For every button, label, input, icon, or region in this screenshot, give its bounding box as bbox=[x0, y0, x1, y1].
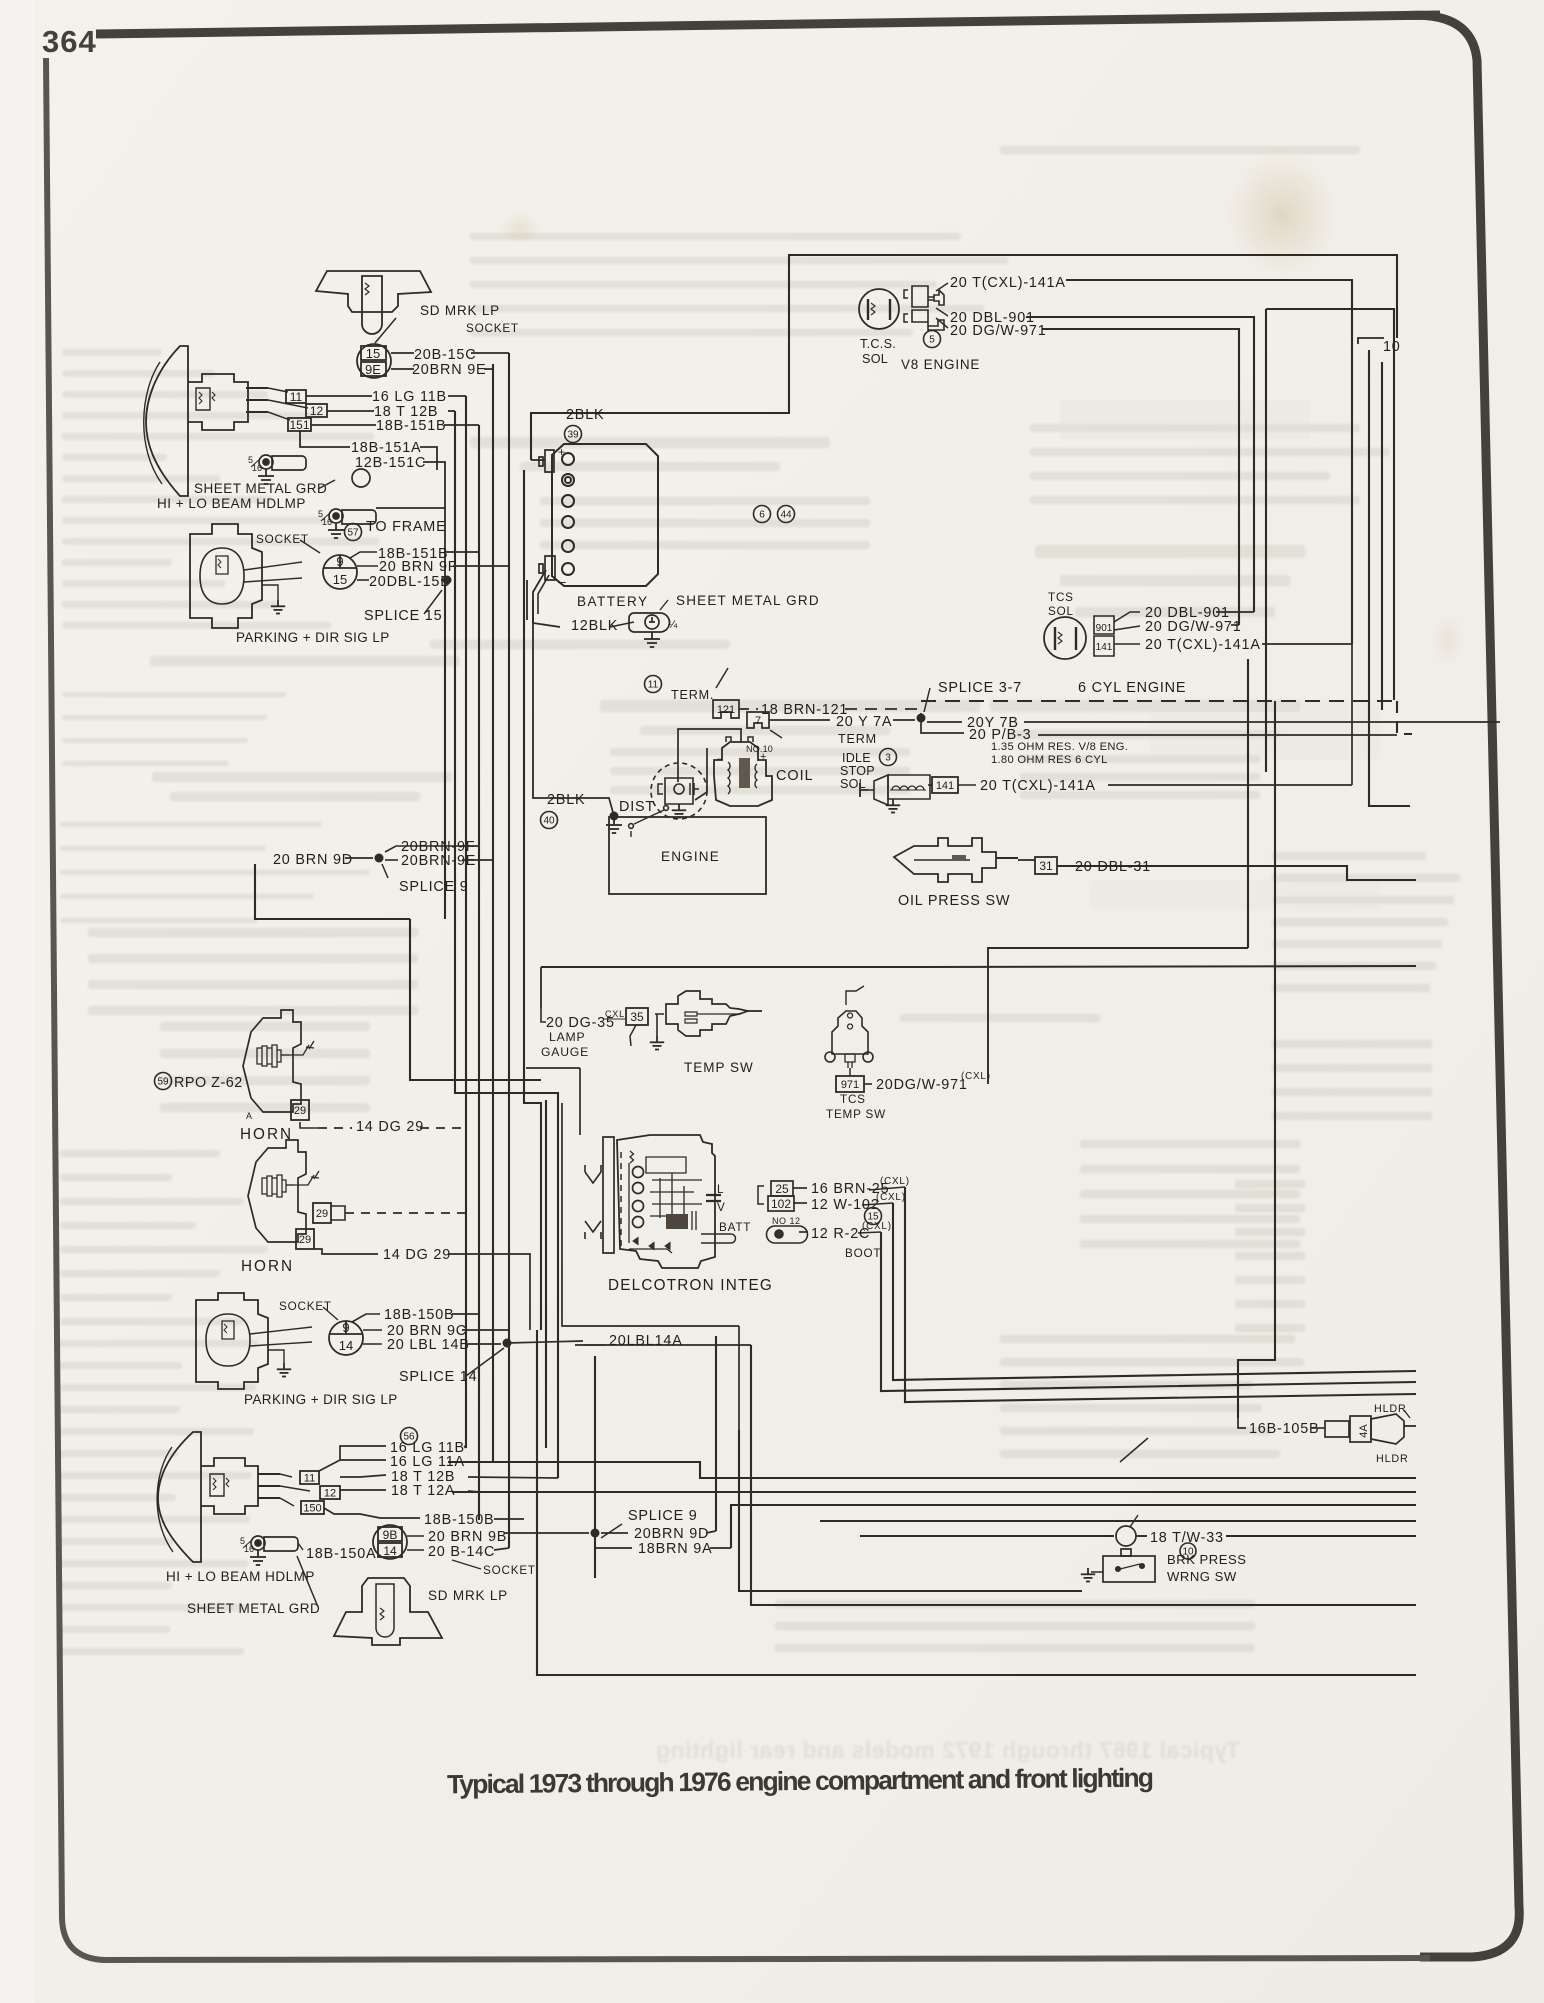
wire into delcotron bbox=[579, 1068, 581, 1135]
connector 11 bbox=[286, 390, 306, 404]
svg-text:HLDR: HLDR bbox=[1376, 1453, 1409, 1465]
wire to 18T12B bbox=[327, 410, 374, 412]
svg-text:44: 44 bbox=[780, 510, 792, 521]
battery bbox=[539, 444, 658, 589]
wire 20BRN9D upper bbox=[255, 864, 410, 919]
wire 9C to bus bbox=[462, 1329, 509, 1331]
svg-text:SD MRK LP: SD MRK LP bbox=[428, 1588, 508, 1603]
svg-text:14: 14 bbox=[383, 1544, 397, 1558]
terminal ring 12B-151C bbox=[352, 469, 370, 487]
lamp HI+LO BEAM HDLMP (bottom) bbox=[157, 1432, 280, 1562]
svg-text:SHEET METAL GRD: SHEET METAL GRD bbox=[187, 1601, 320, 1616]
node 59 bbox=[155, 1073, 172, 1090]
wire 20BRN9D lower vertical bbox=[715, 1336, 717, 1531]
dashed 18BRN-121 lead bbox=[739, 708, 758, 710]
pointer splice 3-7 bbox=[924, 688, 930, 712]
node 10 tick bbox=[1358, 338, 1384, 344]
connector 29 (horn1) bbox=[291, 1100, 309, 1120]
wire to 20BRN9B bbox=[407, 1535, 424, 1537]
wire to 20 BRN 9F bbox=[357, 565, 378, 567]
connector 9/15 bbox=[323, 554, 357, 589]
svg-text:59: 59 bbox=[157, 1077, 169, 1088]
wire hdlmp2 pin3 bbox=[280, 1498, 294, 1506]
wire 20BRN9E to bus bbox=[484, 364, 493, 369]
svg-text:TCS: TCS bbox=[1048, 591, 1074, 604]
svg-text:20BRN 9D: 20BRN 9D bbox=[634, 1526, 709, 1542]
ground (hdlmp lug) bbox=[258, 469, 274, 484]
svg-text:Typical 1967 through 1972 mode: Typical 1967 through 1972 models and rea… bbox=[656, 1737, 1240, 1763]
svg-text:PARKING + DIR SIG LP: PARKING + DIR SIG LP bbox=[236, 630, 390, 645]
svg-text:20 T(CXL)-141A: 20 T(CXL)-141A bbox=[1145, 637, 1261, 653]
svg-text:SOL: SOL bbox=[862, 352, 888, 366]
ground (parking lamp 2) bbox=[277, 1363, 291, 1377]
wire 141A right vertical bbox=[1351, 640, 1353, 785]
wire 9E to bus bbox=[462, 859, 493, 861]
svg-text:4A: 4A bbox=[1358, 1424, 1370, 1438]
wire node 10 lead down bbox=[1369, 350, 1410, 806]
wire to 16B-105B bbox=[1238, 1418, 1246, 1428]
dashed wire 6-cyl corner bbox=[1397, 701, 1412, 734]
wire 12A join bbox=[468, 1491, 480, 1492]
svg-text:1.80 OHM RES 6 CYL: 1.80 OHM RES 6 CYL bbox=[991, 754, 1108, 766]
wire 14DG29 to bus bbox=[448, 1254, 530, 1330]
svg-text:102: 102 bbox=[771, 1197, 791, 1211]
wire bus 16LG11B down bbox=[465, 396, 467, 1448]
svg-text:+: + bbox=[760, 751, 767, 763]
wire battery - diag 2 bbox=[538, 575, 549, 614]
connector 971 bbox=[836, 1076, 864, 1092]
engine block bbox=[609, 817, 766, 894]
svg-text:3: 3 bbox=[885, 753, 891, 764]
ground (parking lamp) bbox=[271, 600, 285, 614]
wire to 18B-150B(2) bbox=[324, 1508, 420, 1518]
svg-text:35: 35 bbox=[630, 1010, 644, 1024]
wire 16BRN-25 run bbox=[905, 1187, 1416, 1402]
svg-text:RPO Z-62: RPO Z-62 bbox=[174, 1075, 243, 1091]
wire 11A to long run bbox=[464, 1461, 493, 1463]
wire bus 18B-151B/150B down bbox=[478, 425, 480, 1520]
dashed 14DG29 return bbox=[345, 1212, 466, 1214]
wire engine row right bbox=[921, 966, 1416, 967]
wire to 20LBL14B bbox=[363, 1343, 382, 1345]
svg-text:2BLK: 2BLK bbox=[566, 407, 604, 423]
svg-text:7: 7 bbox=[755, 715, 761, 727]
wire long run B (right) bbox=[1226, 1535, 1416, 1537]
node 10 (brk) bbox=[1180, 1543, 1196, 1559]
svg-text:12: 12 bbox=[310, 404, 324, 418]
wire to 20B-14C bbox=[407, 1549, 424, 1551]
wire 14A left seg bbox=[507, 1341, 583, 1343]
wire long run B (left) bbox=[860, 1535, 1114, 1537]
wire DBL-31 right bbox=[1150, 865, 1347, 867]
svg-text:SHEET METAL GRD: SHEET METAL GRD bbox=[676, 593, 820, 608]
svg-text:PARKING + DIR SIG LP: PARKING + DIR SIG LP bbox=[244, 1392, 398, 1407]
wire delcotron bottom row 2 bbox=[575, 1344, 751, 1346]
svg-text:10: 10 bbox=[1383, 339, 1401, 355]
svg-text:OIL PRESS SW: OIL PRESS SW bbox=[898, 893, 1010, 909]
pointer splice 14 bbox=[466, 1348, 504, 1376]
TCS solenoid (6 cyl) bbox=[1044, 616, 1114, 659]
svg-text:SPLICE 3-7: SPLICE 3-7 bbox=[938, 680, 1022, 696]
wire to 18BRN9A bbox=[595, 1533, 632, 1548]
wire 12B to bus bbox=[468, 1477, 558, 1478]
ground (12BLK lug) bbox=[644, 632, 660, 647]
wire 971 up to trunk bbox=[988, 948, 1248, 1084]
wire 20B-15C to bus bbox=[471, 352, 509, 354]
svg-text:SPLICE 14: SPLICE 14 bbox=[399, 1369, 477, 1385]
svg-text:L: L bbox=[717, 1183, 724, 1196]
svg-text:20 BRN 9D: 20 BRN 9D bbox=[273, 852, 353, 868]
lamp HI+LO BEAM HDLMP (top) bbox=[144, 346, 268, 496]
lamp PARKING + DIR SIG LP (top) bbox=[190, 524, 302, 628]
svg-text:20 DG/W-971: 20 DG/W-971 bbox=[950, 323, 1047, 339]
pointer grd (2) bbox=[297, 1556, 318, 1607]
wire 141 lead bbox=[958, 784, 976, 786]
svg-text:39: 39 bbox=[567, 430, 579, 441]
connector 9/14 bbox=[329, 1320, 363, 1355]
connector 11 (2) bbox=[300, 1471, 319, 1484]
svg-text:14 DG 29: 14 DG 29 bbox=[383, 1247, 451, 1263]
brake pressure warning switch bbox=[1091, 1515, 1155, 1582]
wire 12B-151C to splice15 bus bbox=[423, 462, 445, 580]
wire to 20DBL-15B bbox=[357, 579, 369, 581]
wire to 20DG/W-971(2) bbox=[1114, 626, 1140, 630]
svg-text:57: 57 bbox=[347, 528, 359, 539]
svg-text:18BRN 9A: 18BRN 9A bbox=[638, 1541, 712, 1557]
splice 15 node bbox=[443, 576, 452, 585]
node 3 bbox=[880, 749, 897, 766]
distributor bbox=[629, 763, 707, 837]
coil bbox=[714, 737, 772, 806]
svg-text:16 LG 11B: 16 LG 11B bbox=[372, 389, 447, 405]
svg-text:6: 6 bbox=[759, 510, 765, 521]
ground (idle sol) bbox=[886, 799, 900, 813]
ground (distributor) bbox=[672, 804, 686, 818]
wire stub bbox=[526, 580, 528, 620]
wire 971 lead bbox=[864, 1083, 872, 1085]
ground lug 12BLK sheet metal grd bbox=[629, 613, 678, 632]
svg-text:BRK PRESS: BRK PRESS bbox=[1167, 1552, 1246, 1567]
svg-text:GAUGE: GAUGE bbox=[541, 1045, 589, 1059]
node 56 bbox=[401, 1428, 418, 1445]
svg-text:31: 31 bbox=[1039, 859, 1053, 873]
svg-text:11: 11 bbox=[290, 390, 303, 404]
svg-text:TERM.: TERM. bbox=[671, 688, 714, 702]
pointer splice 15 bbox=[424, 590, 442, 614]
temp switch (engine unit) bbox=[655, 991, 762, 1036]
wire 20DBL-31 to right bbox=[1057, 866, 1416, 880]
svg-text:HORN: HORN bbox=[240, 1126, 293, 1143]
svg-text:SOCKET: SOCKET bbox=[279, 1300, 332, 1313]
wire 12BLK to lug bbox=[610, 622, 634, 627]
svg-text:141: 141 bbox=[1096, 642, 1113, 653]
svg-text:SHEET METAL GRD: SHEET METAL GRD bbox=[194, 481, 327, 496]
wire 20BRN9D jog bbox=[410, 919, 541, 1080]
svg-text:20DG/W-971: 20DG/W-971 bbox=[876, 1077, 968, 1093]
svg-text:COIL: COIL bbox=[776, 768, 814, 784]
svg-text:18B-151A: 18B-151A bbox=[351, 440, 421, 456]
oil pressure switch bbox=[894, 838, 1018, 882]
pointer 121 bbox=[716, 668, 728, 688]
svg-text:1.35 OHM RES. V/8 ENG.: 1.35 OHM RES. V/8 ENG. bbox=[991, 741, 1128, 753]
svg-text:9B: 9B bbox=[383, 1528, 398, 1542]
connector 121 bbox=[713, 700, 739, 718]
wire 18T12A long run bbox=[452, 1491, 1416, 1493]
wire to 20BRN9D lower bbox=[601, 1532, 628, 1534]
wire brake switch feed bbox=[739, 1430, 1082, 1591]
svg-text:18B-151B: 18B-151B bbox=[376, 418, 446, 434]
connector 9B/14 bbox=[373, 1525, 407, 1559]
ground (temp sw) bbox=[650, 1036, 664, 1050]
wire 9D to vertical bbox=[706, 1531, 716, 1533]
wire to 16LG11B(2) bbox=[319, 1446, 386, 1471]
wire 12W-102 to turn bbox=[862, 1203, 893, 1205]
node 6 bbox=[754, 506, 771, 523]
svg-text:29: 29 bbox=[316, 1208, 328, 1220]
wire to 20Y7B label bbox=[927, 721, 962, 723]
node 39 bbox=[565, 426, 582, 443]
svg-text:2BLK: 2BLK bbox=[547, 792, 585, 808]
svg-text:WRNG SW: WRNG SW bbox=[1167, 1569, 1237, 1584]
svg-text:121: 121 bbox=[717, 704, 735, 716]
connector 12 bbox=[306, 404, 327, 418]
svg-text:LAMP: LAMP bbox=[549, 1030, 585, 1044]
ground (engine) bbox=[606, 818, 622, 833]
wire bus splice15 down bbox=[444, 580, 446, 919]
pointer socket (sd mrk 2) bbox=[452, 1560, 481, 1569]
pointer hldr bbox=[1404, 1410, 1410, 1418]
dashed wire 6-cyl engine run bbox=[921, 700, 1397, 702]
wire splice to P/B-3 bbox=[921, 718, 964, 733]
svg-text:–: – bbox=[717, 753, 724, 765]
svg-text:9E: 9E bbox=[365, 362, 381, 377]
lamp PARKING + DIR SIG LP (bottom) bbox=[196, 1293, 312, 1389]
wire horn1 to dashed bbox=[300, 1122, 318, 1128]
wire hdlmp pin1 bbox=[268, 388, 288, 392]
horn 2 bbox=[248, 1140, 319, 1242]
node 44 bbox=[778, 506, 795, 523]
page border: top bar bbox=[96, 15, 1440, 34]
svg-text:STOP: STOP bbox=[840, 764, 875, 778]
wire 16BRN-25 lead bbox=[793, 1187, 807, 1189]
dashed 14DG29 vertical bbox=[465, 1128, 467, 1213]
wire bus 12B-151C down bbox=[524, 470, 541, 1330]
wire 2BLK battery + to TCS sol / node 10 trunk bbox=[531, 255, 1397, 460]
svg-text:HLDR: HLDR bbox=[1374, 1403, 1407, 1415]
svg-text:BATT: BATT bbox=[719, 1221, 751, 1234]
svg-text:+: + bbox=[558, 445, 565, 459]
svg-text:SOL: SOL bbox=[840, 777, 866, 791]
idle stop solenoid bbox=[860, 775, 930, 805]
wire 20P/B-3 right bbox=[1038, 734, 1397, 736]
svg-text:9: 9 bbox=[342, 1320, 349, 1335]
svg-text:11: 11 bbox=[648, 680, 659, 691]
svg-text:(CXL): (CXL) bbox=[961, 1071, 991, 1082]
wire hdlmp pin3 bbox=[268, 412, 290, 420]
svg-text:12B-151C: 12B-151C bbox=[355, 455, 426, 471]
wire 20DG/W-971 right trunk bbox=[1042, 329, 1239, 625]
svg-text:20BRN-9E: 20BRN-9E bbox=[401, 853, 476, 869]
svg-text:DELCOTRON INTEG: DELCOTRON INTEG bbox=[608, 1277, 773, 1294]
wire trunk to 16B-105B holder bbox=[1238, 701, 1275, 1418]
pointer TCS connector bbox=[936, 283, 948, 291]
node 5 bbox=[924, 331, 941, 348]
svg-text:29: 29 bbox=[294, 1105, 306, 1117]
ground lug TO FRAME bbox=[318, 509, 376, 527]
wire long run A bbox=[820, 1520, 1416, 1522]
wire trunk to dashed 6-cyl line bbox=[1266, 309, 1394, 700]
wire 18T12B to bus bbox=[448, 410, 455, 412]
wire connector to 20BRN 9E bbox=[391, 368, 414, 370]
wire 2BLK to dist bbox=[583, 798, 614, 816]
wire lug to bus bbox=[376, 507, 445, 509]
wire engine row left bbox=[541, 966, 921, 968]
wire horn2 to 14DG29 bbox=[314, 1249, 378, 1254]
svg-text:25: 25 bbox=[775, 1182, 789, 1196]
wire to 20BRN-9E bbox=[385, 859, 398, 861]
wire to 18B-151B bbox=[311, 424, 376, 426]
svg-text:20LBL14A: 20LBL14A bbox=[609, 1333, 683, 1349]
wire 18B-151B(2) to bus bbox=[446, 551, 479, 553]
wire to 20DBL-901(2) bbox=[1114, 612, 1140, 622]
connector 25/102 bbox=[758, 1181, 794, 1211]
wire trunk B down bbox=[1265, 309, 1267, 772]
wire bus to lower 16LG11B bbox=[545, 1100, 547, 1448]
ground lug sheet metal (hdlmp) bbox=[248, 455, 306, 473]
wire 20T(CXL)-141A from V8 TCS sol down right side bbox=[1066, 280, 1352, 644]
connector 15/9E bbox=[357, 344, 391, 378]
wire 16LG11B to bus bbox=[448, 395, 466, 397]
pointer sheet metal grd bbox=[318, 480, 335, 489]
pigtail connector 35 bbox=[630, 1025, 636, 1046]
connector 31 bbox=[1035, 857, 1057, 874]
svg-text:20B-15C: 20B-15C bbox=[414, 347, 476, 363]
svg-text:18B-150A: 18B-150A bbox=[306, 1546, 376, 1562]
wire bottom-most long run bbox=[537, 1330, 1416, 1675]
wire to 18T12A bbox=[340, 1489, 386, 1491]
wire 9F to bus bbox=[462, 845, 479, 847]
splice 14 node bbox=[503, 1339, 512, 1348]
svg-text:15: 15 bbox=[333, 572, 347, 587]
svg-text:20 BRN 9F: 20 BRN 9F bbox=[379, 559, 457, 575]
wire 16BRN-25 to turn bbox=[869, 1187, 905, 1190]
svg-text:V: V bbox=[717, 1201, 726, 1214]
svg-text:141: 141 bbox=[936, 780, 954, 792]
svg-text:CXL: CXL bbox=[605, 1009, 625, 1019]
svg-text:SPLICE 9: SPLICE 9 bbox=[628, 1508, 698, 1524]
wire 9A join bbox=[710, 1547, 731, 1549]
connector 150 bbox=[301, 1501, 324, 1514]
svg-text:TERM: TERM bbox=[838, 732, 877, 746]
svg-text:18 T 12A: 18 T 12A bbox=[391, 1483, 455, 1499]
lamp SD MRK LP (top side marker) bbox=[316, 271, 431, 343]
splice 9 node (lower) bbox=[591, 1529, 600, 1538]
wire tcs pin3 bbox=[936, 318, 948, 328]
wire 12R-2C to turn bbox=[858, 1232, 881, 1233]
connector 151 bbox=[288, 418, 311, 432]
dashed 14DG29 right bbox=[420, 1127, 466, 1129]
wire 14B to splice14 bbox=[466, 1343, 501, 1345]
svg-text:9: 9 bbox=[336, 554, 343, 569]
splice 9 node (upper) bbox=[375, 854, 384, 863]
wire to 18B-151B(2) bbox=[350, 552, 377, 558]
wire 141A to right trunk bbox=[1108, 784, 1352, 786]
svg-text:151: 151 bbox=[289, 418, 309, 432]
connector 141 bbox=[932, 777, 958, 793]
wire 20DBL-901 right trunk bbox=[1026, 317, 1254, 612]
svg-text:15: 15 bbox=[366, 346, 380, 361]
wire to 20DG-35 bbox=[541, 1008, 546, 1022]
pointer socket 2 bbox=[323, 1307, 338, 1320]
wire tcs temp to 971 bbox=[849, 1068, 851, 1076]
wire 20LBL14A down right bbox=[738, 1326, 740, 1430]
wire to 18B-151A bbox=[300, 430, 350, 447]
ground (brk press sw) bbox=[1081, 1568, 1095, 1582]
wire bus 20BRN9E down bbox=[492, 364, 494, 1462]
svg-text:16 LG 11A: 16 LG 11A bbox=[390, 1454, 465, 1470]
svg-text:364: 364 bbox=[42, 24, 97, 59]
svg-text:40: 40 bbox=[543, 816, 555, 827]
wire 12W-102 lead bbox=[793, 1202, 807, 1204]
svg-text:(CXL): (CXL) bbox=[880, 1176, 910, 1187]
svg-text:SD MRK LP: SD MRK LP bbox=[420, 303, 500, 318]
wire 18BRN9A long run bbox=[731, 1505, 1416, 1548]
wire 7 to 20Y7A bbox=[769, 719, 830, 721]
wire to 20BRN-9F bbox=[385, 846, 470, 852]
node 40 bbox=[541, 812, 558, 829]
svg-text:¼: ¼ bbox=[668, 619, 678, 631]
wire connector to 20B-15C bbox=[391, 352, 414, 354]
wire 150B to bus bbox=[452, 1313, 479, 1315]
dashed wire to splice 3-7 bbox=[845, 709, 921, 718]
wire 12W-102 run bbox=[893, 1203, 1416, 1380]
connector 29b (horn2) bbox=[296, 1229, 314, 1249]
wire battery - to 12BLK bbox=[533, 570, 560, 627]
wire hdlmp2 pin2 bbox=[280, 1486, 310, 1491]
wire coil - to points bbox=[695, 748, 707, 800]
wire 12R-2C lead bbox=[799, 1231, 808, 1233]
pointer splice 9 bbox=[382, 864, 388, 878]
connector 7 bbox=[747, 712, 769, 728]
node 57 bbox=[345, 524, 362, 541]
wire tcs pin2 bbox=[936, 308, 948, 316]
svg-text:BOOT: BOOT bbox=[845, 1247, 881, 1260]
wire jog to delcotron bbox=[526, 1067, 580, 1069]
horn 1 (RPO Z62) bbox=[243, 1010, 314, 1112]
wire sol to 141 bbox=[928, 784, 932, 786]
svg-text:HI + LO BEAM HDLMP: HI + LO BEAM HDLMP bbox=[157, 496, 306, 511]
svg-text:11: 11 bbox=[304, 1472, 315, 1484]
node 11 bbox=[645, 676, 662, 693]
wire right trunk A bbox=[1381, 362, 1383, 710]
wire 16LG11A long run bbox=[448, 1462, 1416, 1478]
svg-text:150: 150 bbox=[303, 1502, 321, 1514]
wire to 16LG11A bbox=[340, 1459, 386, 1461]
svg-text:HI + LO BEAM HDLMP: HI + LO BEAM HDLMP bbox=[166, 1569, 315, 1584]
wire sw to 31 bbox=[1018, 859, 1035, 861]
connector 35 bbox=[626, 1008, 648, 1025]
wire hdlmp2 pin1 bbox=[280, 1474, 292, 1477]
svg-text:ENGINE: ENGINE bbox=[661, 849, 720, 864]
wire long run to brake switch row bbox=[751, 1345, 1416, 1605]
svg-text:16B-105B: 16B-105B bbox=[1249, 1421, 1319, 1437]
wire to 18T12B(2) bbox=[340, 1475, 386, 1477]
dist ground node bbox=[610, 812, 619, 821]
wire 20BRN9F to bus-- bbox=[453, 565, 509, 567]
fuse holder 4A bbox=[1120, 1414, 1416, 1462]
wire lug to 150A bbox=[298, 1543, 303, 1550]
svg-text:TEMP SW: TEMP SW bbox=[826, 1108, 886, 1121]
